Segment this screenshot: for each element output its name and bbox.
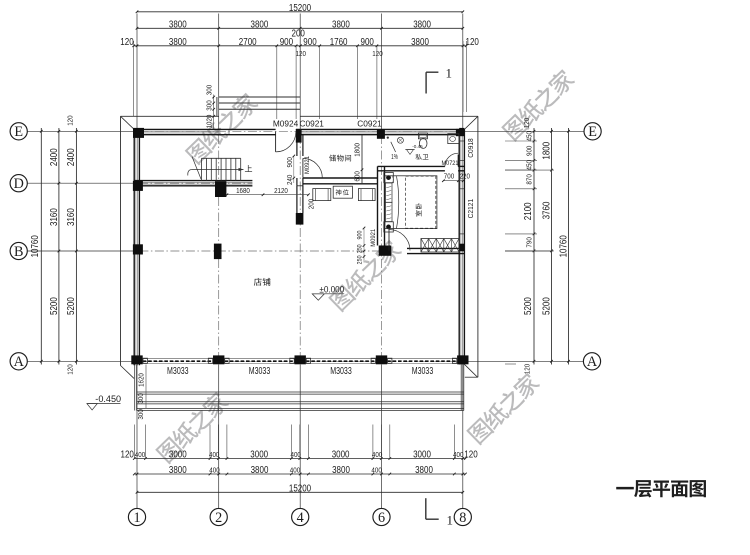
toilet (418, 133, 427, 139)
svg-text:3000: 3000 (169, 450, 187, 461)
left wall (133, 129, 135, 365)
svg-text:400: 400 (371, 465, 381, 474)
svg-text:600: 600 (353, 171, 362, 181)
svg-text:M0924: M0924 (273, 118, 299, 128)
svg-text:870: 870 (524, 174, 533, 184)
g4 partition wall (296, 135, 298, 156)
nightstand 1 (384, 173, 394, 183)
svg-text:M0921: M0921 (370, 229, 377, 247)
storage room bottom wall (303, 177, 378, 179)
bedroom south wall B axis (407, 247, 464, 249)
shower level mark (405, 149, 415, 151)
svg-text:400: 400 (291, 450, 301, 459)
svg-text:1620: 1620 (137, 373, 146, 387)
svg-text:E: E (588, 124, 597, 140)
stair (202, 157, 241, 159)
floor drain (397, 137, 403, 143)
svg-text:1800: 1800 (353, 143, 362, 157)
shrine table left (313, 189, 331, 201)
svg-text:2400: 2400 (66, 148, 77, 166)
room labels (254, 278, 262, 286)
svg-text:250: 250 (357, 255, 364, 264)
axis grid lines (136, 14, 138, 130)
svg-text:900: 900 (361, 37, 375, 48)
bed (385, 176, 437, 229)
left dimension columns (40, 128, 42, 365)
svg-text:900: 900 (524, 146, 533, 156)
svg-text:-0.450: -0.450 (95, 394, 121, 404)
svg-text:6: 6 (378, 510, 385, 526)
svg-text:400: 400 (453, 450, 463, 459)
svg-text:3800: 3800 (251, 19, 269, 30)
svg-text:M3033: M3033 (167, 366, 189, 377)
svg-text:15200: 15200 (289, 483, 312, 494)
bathroom south wall (378, 165, 445, 167)
eave outline (121, 115, 219, 117)
entrance steps (137, 391, 464, 393)
svg-text:120: 120 (65, 115, 74, 125)
axis bubbles (10, 123, 27, 140)
svg-text:450: 450 (524, 131, 533, 141)
svg-text:E: E (14, 124, 23, 140)
svg-text:120: 120 (120, 37, 134, 48)
svg-text:120: 120 (65, 364, 74, 374)
svg-text:3800: 3800 (413, 19, 431, 30)
svg-text:3800: 3800 (415, 465, 433, 476)
svg-text:250: 250 (357, 244, 364, 253)
storefront M3033 dashed doors (143, 358, 213, 360)
1680/2120 dim (227, 194, 309, 196)
section mark top (425, 72, 427, 93)
svg-text:3000: 3000 (413, 450, 431, 461)
svg-text:120: 120 (522, 118, 531, 128)
D axis wall with stair landing window (134, 180, 252, 182)
door M0921 storage (302, 158, 304, 177)
svg-text:3800: 3800 (169, 465, 187, 476)
svg-text:10760: 10760 (30, 235, 41, 258)
columns (black) (133, 128, 144, 138)
top wall E axis (134, 128, 221, 130)
right dimension columns (533, 128, 535, 365)
svg-text:3760: 3760 (541, 201, 552, 219)
svg-text:200: 200 (306, 199, 315, 209)
bottom dimension rows (134, 458, 465, 460)
svg-text:3160: 3160 (49, 208, 60, 226)
svg-text:1020: 1020 (204, 115, 213, 129)
nightstand 2 (384, 222, 394, 232)
svg-text:2100: 2100 (523, 202, 534, 220)
svg-text:5200: 5200 (66, 297, 77, 315)
svg-text:300: 300 (204, 85, 213, 95)
door M0924 (top entry) (275, 132, 277, 152)
svg-text:1: 1 (447, 513, 454, 528)
svg-text:3800: 3800 (411, 37, 429, 48)
shrine table right (358, 189, 375, 201)
svg-text:5200: 5200 (541, 297, 552, 315)
svg-text:2: 2 (215, 510, 222, 526)
svg-text:M3033: M3033 (330, 366, 352, 377)
svg-text:300: 300 (204, 100, 213, 110)
bedroom door dims (363, 228, 365, 263)
svg-text:5200: 5200 (523, 297, 534, 315)
svg-text:3160: 3160 (66, 208, 77, 226)
svg-text:900: 900 (357, 230, 364, 239)
svg-text:M3033: M3033 (249, 366, 271, 377)
svg-text:2120: 2120 (274, 186, 288, 195)
svg-text:120: 120 (296, 49, 306, 58)
svg-text:120: 120 (466, 37, 480, 48)
entry porch steps (219, 96, 301, 98)
vanity basin (448, 134, 459, 144)
svg-text:3800: 3800 (332, 465, 350, 476)
slope arrow 1% (391, 142, 396, 152)
top dimension rows (137, 11, 463, 13)
svg-text:120: 120 (372, 49, 382, 58)
svg-text:1760: 1760 (330, 37, 348, 48)
watermark layer (185, 91, 260, 166)
svg-text:3000: 3000 (332, 450, 350, 461)
svg-text:M3033: M3033 (412, 366, 434, 377)
svg-text:400: 400 (135, 450, 145, 459)
svg-text:C2121: C2121 (466, 199, 475, 219)
svg-text:3800: 3800 (169, 37, 187, 48)
svg-text:A: A (587, 354, 598, 370)
door M0921 bedroom (388, 228, 390, 251)
svg-text:220: 220 (460, 172, 470, 181)
bedroom label (416, 203, 422, 209)
svg-text:900: 900 (285, 157, 294, 167)
svg-text:120: 120 (121, 450, 135, 461)
svg-text:1800: 1800 (541, 141, 552, 159)
right wall (463, 129, 465, 364)
svg-text:M0921: M0921 (304, 156, 311, 174)
svg-text:C0921: C0921 (299, 118, 324, 128)
right wall window sills (459, 140, 464, 142)
svg-text:B: B (14, 244, 23, 260)
svg-text:C0921: C0921 (357, 118, 382, 128)
svg-text:400: 400 (209, 450, 219, 459)
svg-text:8: 8 (459, 510, 466, 526)
storage/bath partition dim line (361, 135, 363, 183)
svg-text:300: 300 (136, 393, 145, 403)
bath door dim 700 (443, 180, 463, 182)
svg-text:400: 400 (209, 465, 219, 474)
svg-text:1: 1 (446, 66, 453, 81)
shrine box (333, 186, 352, 198)
svg-text:790: 790 (524, 237, 533, 247)
svg-text:400: 400 (290, 465, 300, 474)
eave corner diagonals (121, 116, 135, 129)
wardrobe dashed (406, 176, 436, 228)
bedroom west wall (377, 166, 379, 245)
svg-text:120: 120 (464, 450, 478, 461)
svg-text:4: 4 (297, 510, 304, 526)
svg-text:700: 700 (444, 172, 454, 181)
svg-text:M0721: M0721 (442, 160, 459, 167)
svg-text:C0918: C0918 (466, 138, 475, 158)
svg-text:A: A (14, 354, 25, 370)
title (616, 487, 634, 489)
svg-text:2400: 2400 (49, 148, 60, 166)
svg-text:450: 450 (524, 160, 533, 170)
svg-text:1680: 1680 (236, 186, 250, 195)
svg-text:2700: 2700 (239, 37, 257, 48)
svg-text:3800: 3800 (251, 465, 269, 476)
svg-text:3000: 3000 (250, 450, 268, 461)
section mark bottom (425, 498, 427, 519)
svg-text:1%: 1% (391, 154, 398, 161)
svg-text:3800: 3800 (169, 19, 187, 30)
svg-text:240: 240 (285, 175, 294, 185)
svg-text:1: 1 (133, 510, 140, 526)
svg-text:900: 900 (303, 37, 317, 48)
svg-text:±0.000: ±0.000 (319, 284, 344, 294)
svg-text:10760: 10760 (558, 235, 569, 258)
cabinet crosshatch (421, 239, 459, 253)
svg-text:120: 120 (522, 364, 531, 374)
svg-text:400: 400 (372, 450, 382, 459)
svg-text:300: 300 (136, 409, 145, 419)
svg-text:15200: 15200 (289, 3, 312, 14)
door M0721 bath (457, 155, 459, 167)
svg-text:5200: 5200 (49, 297, 60, 315)
svg-text:D: D (14, 176, 24, 192)
svg-text:3800: 3800 (332, 19, 350, 30)
